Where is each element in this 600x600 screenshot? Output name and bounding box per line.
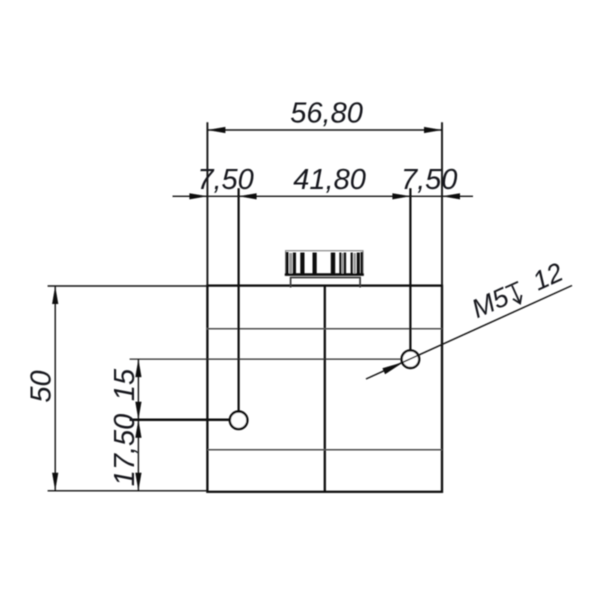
extension line top left horizontal [48, 285, 208, 287]
knob knurl outline [286, 251, 363, 275]
arrow 50 top [52, 286, 58, 304]
dimension line 7,50 / 41,80 / 7,50 [173, 195, 474, 197]
svg-text:15: 15 [109, 368, 141, 401]
depth symbol [505, 282, 526, 306]
center line hole H1 vertical [238, 188, 240, 411]
arrow at right edge pointing left [442, 193, 460, 199]
hole H2 right circle (M5) [402, 350, 420, 368]
svg-text:41,80: 41,80 [293, 164, 366, 196]
arrow 17,50 bottom [135, 473, 141, 491]
center line hole H2 vertical [409, 188, 411, 350]
leader arrow [382, 362, 403, 374]
arrow 17,50 top [135, 420, 141, 438]
arrow 15 top [135, 359, 141, 377]
svg-text:7,50: 7,50 [197, 164, 253, 196]
extension line left edge vertical [206, 122, 208, 285]
dimension line 50 vertical [54, 286, 56, 491]
thick extension line at left hole level [130, 419, 230, 422]
dimension line 56,80 [207, 129, 442, 131]
hole H1 left circle [230, 412, 248, 430]
svg-text:50: 50 [26, 370, 58, 402]
arrow at left edge pointing right [189, 193, 207, 199]
body internal line upper [206, 328, 442, 330]
callout text M5 depth 12 [467, 257, 567, 324]
extension line right edge vertical [441, 122, 443, 285]
leader line M5 [366, 286, 572, 380]
arrow 50 bottom [52, 473, 58, 491]
extension line at M5 hole level [130, 358, 402, 360]
arrow 56,80 right [424, 127, 442, 133]
arrow 56,80 left [207, 127, 225, 133]
svg-text:56,80: 56,80 [290, 98, 363, 130]
extension line bottom left horizontal [48, 490, 208, 492]
body center line [324, 286, 326, 492]
knob neck [291, 278, 361, 288]
knob knurl bottom thick line [285, 273, 364, 276]
arrow 15 bottom [135, 402, 141, 420]
body internal line lower [207, 449, 442, 451]
arrow 41,80 left pointing left [239, 193, 257, 199]
svg-text:7,50: 7,50 [401, 164, 457, 196]
dimension line 15 / 17,50 vertical [137, 359, 139, 491]
knob knurl stripes [287, 252, 362, 274]
body outline [207, 286, 442, 492]
arrow 41,80 right pointing right [392, 193, 410, 199]
svg-text:17,50: 17,50 [109, 414, 141, 487]
